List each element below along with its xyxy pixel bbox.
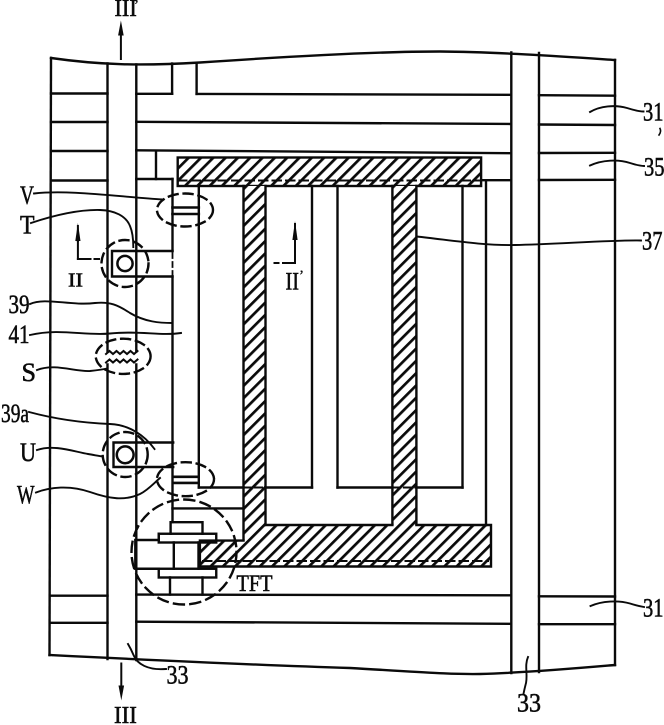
substrate top edge xyxy=(51,52,615,65)
leader 39 xyxy=(30,301,173,323)
line break symbol S lower zigzag xyxy=(106,360,138,363)
leader 35 xyxy=(590,161,644,166)
TFT drain bottom tab xyxy=(170,578,203,595)
svg-text:31: 31 xyxy=(643,594,664,623)
dashed ellipse around break S xyxy=(96,339,151,374)
leader T xyxy=(31,210,133,247)
contact hole T circle xyxy=(117,256,132,271)
contact W bars xyxy=(173,477,199,483)
svg-text:31: 31 xyxy=(643,98,664,127)
svg-text:35: 35 xyxy=(644,153,664,182)
leader W xyxy=(36,478,160,498)
leader 31 top xyxy=(590,106,644,112)
stray tick below 31 xyxy=(659,129,661,136)
gate line 31 top boundary 2 xyxy=(51,122,615,125)
data line 33 right vertical (left edge) xyxy=(510,53,512,674)
substrate left edge xyxy=(50,58,52,655)
substrate bottom edge xyxy=(50,655,616,674)
svg-text:TFT: TFT xyxy=(237,571,273,596)
pixel electrode bottom connector xyxy=(199,486,463,488)
svg-text:37: 37 xyxy=(642,227,663,256)
pixel electrode finger P2 xyxy=(312,186,338,488)
common electrode finger F1 xyxy=(244,186,266,541)
pixel electrode hidden edge (dashed) in top bar xyxy=(178,180,481,182)
common electrode 37 top bar xyxy=(178,158,481,187)
gate line 31 top boundary 1 xyxy=(51,94,615,96)
TFT I-shape top bar xyxy=(159,534,217,543)
svg-text:U: U xyxy=(20,438,36,467)
svg-text:III: III xyxy=(114,703,137,725)
pixel electrode finger P1 left edge xyxy=(171,179,173,522)
leader S xyxy=(37,367,107,371)
gate region tab right vertical xyxy=(195,63,197,94)
section arrow II' foot xyxy=(275,262,296,264)
hidden connector dashed across F1 xyxy=(244,487,266,489)
TFT drain top tab xyxy=(171,522,203,534)
hidden edge (dashed) in bottom bar xyxy=(203,560,488,562)
gate line 31 bottom boundary 1 xyxy=(50,595,615,597)
arrowhead II' xyxy=(292,221,297,240)
dashed ellipse around contact W xyxy=(157,462,214,496)
common line 35 boundary 2 xyxy=(51,179,615,181)
data line 33 left vertical (left edge) xyxy=(106,64,108,660)
data line 33 left vertical (right edge) xyxy=(135,65,137,661)
leader 31 bottom xyxy=(591,601,645,607)
svg-text:41: 41 xyxy=(9,320,30,349)
arrowhead II xyxy=(75,223,80,241)
storage bar T xyxy=(112,251,173,277)
svg-text:39a: 39a xyxy=(1,399,29,428)
contact hole U circle xyxy=(117,446,134,463)
svg-text:33: 33 xyxy=(167,661,189,690)
section arrow II foot xyxy=(78,258,99,260)
common electrode 37 bottom bar xyxy=(200,541,266,567)
arrowhead III xyxy=(119,686,125,701)
section arrow III (bottom) xyxy=(120,664,122,687)
svg-text:II: II xyxy=(286,269,300,296)
dashed circle around contact U xyxy=(103,432,148,477)
leader 33 right xyxy=(524,657,529,694)
svg-text:W: W xyxy=(17,481,35,510)
line break symbol S upper zigzag xyxy=(106,351,138,354)
gate region tab left vertical xyxy=(171,64,173,94)
P1 left edge dashed through T bar xyxy=(172,253,174,275)
svg-text:S: S xyxy=(22,358,37,387)
gate line 31 bottom boundary 2 xyxy=(50,622,615,625)
leader U xyxy=(37,448,103,457)
svg-text:33: 33 xyxy=(517,689,541,718)
leader 33 left xyxy=(128,644,166,669)
common line 35 boundary 1 xyxy=(51,150,615,153)
dashed ellipse around contact V xyxy=(157,194,213,227)
drain connector lower edge xyxy=(173,507,244,509)
TFT channel vertical xyxy=(174,543,199,569)
svg-text:’: ’ xyxy=(134,0,139,14)
TFT source pad xyxy=(135,534,158,569)
storage bar U xyxy=(114,443,174,468)
svg-text:V: V xyxy=(20,181,34,210)
svg-text:’: ’ xyxy=(299,268,304,284)
pixel electrode finger P3 xyxy=(463,180,487,525)
leader V xyxy=(34,192,163,199)
arrowhead III' xyxy=(118,21,124,36)
svg-text:II: II xyxy=(68,270,83,292)
contact V bars xyxy=(173,208,199,215)
common line step vertical xyxy=(155,151,157,179)
section arrow II' shaft xyxy=(294,224,296,263)
leader 39a xyxy=(29,412,155,449)
hidden connector dashed across F2 xyxy=(392,487,416,489)
dashed circle around contact T xyxy=(102,240,149,287)
svg-text:39: 39 xyxy=(9,290,30,319)
svg-text:T: T xyxy=(20,211,35,240)
leader 37 xyxy=(417,237,642,246)
section arrow III' xyxy=(120,33,122,59)
pixel electrode finger P1 right edge xyxy=(198,186,200,488)
common electrode finger F2 xyxy=(392,186,416,525)
data line 33 right vertical (right edge) xyxy=(538,53,540,672)
leader 41 xyxy=(30,332,181,335)
substrate right edge xyxy=(614,60,616,665)
dashed circle around TFT xyxy=(132,500,237,605)
TFT I-shape bottom bar xyxy=(159,569,217,578)
section arrow II shaft xyxy=(77,240,79,259)
